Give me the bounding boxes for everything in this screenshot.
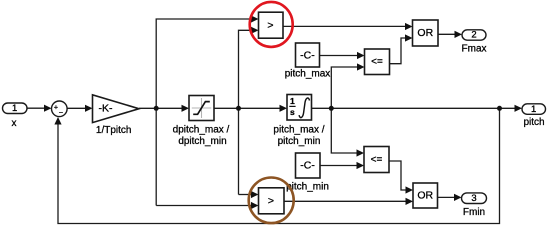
svg-text:Fmax: Fmax	[462, 44, 487, 55]
svg-text:x: x	[12, 118, 17, 129]
svg-text:Fmin: Fmin	[463, 207, 485, 218]
svg-text:−: −	[59, 108, 64, 117]
svg-text:-K-: -K-	[99, 103, 114, 115]
svg-text:pitch: pitch	[523, 117, 544, 128]
svg-text:OR: OR	[417, 27, 433, 39]
svg-text:1: 1	[531, 104, 536, 115]
svg-text:-C-: -C-	[300, 49, 315, 61]
svg-text:pitch_max: pitch_max	[285, 69, 331, 80]
svg-text:pitch_min: pitch_min	[278, 136, 321, 147]
svg-text:OR: OR	[417, 190, 433, 202]
svg-text:+: +	[54, 105, 58, 112]
svg-text:3: 3	[471, 193, 476, 204]
svg-text:2: 2	[471, 30, 476, 41]
svg-text:<=: <=	[371, 154, 383, 165]
svg-text:1/Tpitch: 1/Tpitch	[96, 125, 132, 136]
svg-text:>: >	[267, 19, 273, 31]
svg-text:1: 1	[290, 96, 295, 106]
svg-text:-C-: -C-	[300, 160, 315, 172]
svg-text:dpitch_min: dpitch_min	[178, 136, 226, 147]
svg-text:1: 1	[12, 103, 17, 114]
svg-text:<=: <=	[371, 56, 383, 67]
svg-text:pitch_max /: pitch_max /	[273, 125, 324, 136]
svg-text:s: s	[290, 107, 295, 117]
svg-text:>: >	[268, 195, 274, 207]
svg-text:dpitch_max /: dpitch_max /	[173, 125, 230, 136]
